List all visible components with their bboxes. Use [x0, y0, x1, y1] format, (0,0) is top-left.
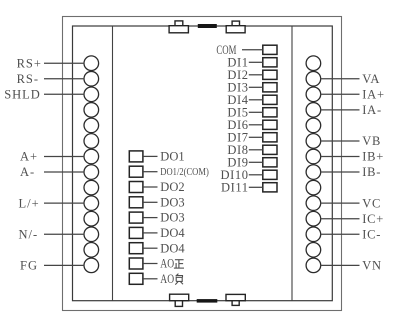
- hanzi FU of label AO-: [175, 274, 183, 285]
- wire DI9: [249, 161, 263, 163]
- wire VC: [320, 202, 359, 204]
- hanzi ZHENG of label AO+: [174, 260, 184, 268]
- terminal IA+: [306, 87, 321, 102]
- svg-text:DO4: DO4: [160, 241, 185, 255]
- wire DO2: [144, 186, 158, 188]
- wire IB-: [320, 171, 359, 173]
- wire IC+: [320, 218, 359, 220]
- wire VA: [320, 78, 359, 80]
- wire A+: [44, 156, 84, 158]
- wire IB+: [320, 156, 359, 158]
- wire IC-: [320, 233, 359, 235]
- wire IA+: [320, 93, 359, 95]
- svg-text:IB-: IB-: [362, 165, 381, 179]
- wire DI5: [249, 111, 263, 113]
- svg-text:DO2: DO2: [160, 180, 184, 194]
- terminal A+: [84, 149, 99, 164]
- terminal VN: [306, 258, 321, 273]
- inner terminal block body: [73, 26, 333, 301]
- wire DO4: [144, 247, 158, 249]
- terminal IA-: [306, 103, 321, 118]
- terminal L/+: [84, 196, 99, 211]
- terminal A-: [84, 165, 99, 180]
- wire AO-: [144, 278, 158, 280]
- DO terminal pad DO3: [129, 197, 143, 208]
- top-left mounting tab: [169, 21, 188, 33]
- wire DO1/2(COM): [144, 171, 158, 173]
- terminal RS+: [84, 56, 99, 71]
- DO terminal pad DO2: [129, 182, 143, 193]
- DI terminal pad DI3: [263, 83, 277, 92]
- DO terminal pad AO-: [129, 273, 143, 284]
- svg-text:RS-: RS-: [17, 72, 39, 86]
- DI terminal pad DI8: [263, 145, 277, 154]
- terminal VC: [306, 196, 321, 211]
- svg-text:AO: AO: [160, 257, 174, 271]
- right terminal 5 (unused): [306, 118, 321, 133]
- svg-text:DO3: DO3: [160, 211, 184, 225]
- DI terminal pad COM: [263, 45, 277, 54]
- wire L/+: [44, 202, 84, 204]
- wire RS+: [44, 62, 84, 64]
- svg-text:N/-: N/-: [19, 227, 39, 241]
- DI terminal pad DI10: [263, 170, 277, 179]
- terminal N/-: [84, 227, 99, 242]
- terminal IC-: [306, 227, 321, 242]
- left terminal strip divider: [112, 26, 114, 301]
- DI terminal pad DI9: [263, 158, 277, 167]
- wire DI2: [249, 74, 263, 76]
- right terminal strip divider: [291, 26, 293, 301]
- DI terminal pad DI4: [263, 95, 277, 104]
- bottom-left mounting tab: [170, 294, 189, 306]
- wire DO1: [144, 155, 158, 157]
- bottom label window (filled): [197, 299, 218, 303]
- svg-text:IA-: IA-: [362, 103, 382, 117]
- wire VB: [320, 140, 359, 142]
- svg-text:IB+: IB+: [362, 150, 384, 164]
- right terminal 1 (unused): [306, 56, 321, 71]
- DO terminal pad DO3: [129, 212, 143, 223]
- DO terminal pad AO+: [129, 258, 143, 269]
- svg-text:IC-: IC-: [362, 227, 381, 241]
- wire DI8: [249, 149, 263, 151]
- svg-text:DO4: DO4: [160, 226, 185, 240]
- svg-text:A-: A-: [20, 165, 35, 179]
- left terminal 5 (unused): [84, 118, 99, 133]
- wire VN: [320, 264, 359, 266]
- terminal RS-: [84, 71, 99, 86]
- outer enclosure box: [63, 17, 342, 311]
- svg-text:VN: VN: [362, 258, 382, 272]
- DO terminal pad DO1: [129, 151, 143, 162]
- DI terminal pad DI6: [263, 120, 277, 129]
- wire DI4: [249, 99, 263, 101]
- svg-text:DO1: DO1: [160, 150, 184, 164]
- left terminal 6 (unused): [84, 134, 99, 149]
- svg-text:VB: VB: [362, 134, 381, 148]
- svg-text:IC+: IC+: [362, 212, 384, 226]
- left terminal 9 (unused): [84, 180, 99, 195]
- right terminal 9 (unused): [306, 180, 321, 195]
- terminal IB-: [306, 165, 321, 180]
- wire COM: [242, 49, 263, 51]
- svg-text:A+: A+: [20, 150, 38, 164]
- svg-text:AO: AO: [160, 272, 174, 286]
- DI terminal pad DI11: [263, 183, 277, 192]
- left terminal 4 (unused): [84, 103, 99, 118]
- wire IA-: [320, 109, 359, 111]
- wire DI3: [249, 86, 263, 88]
- wire SHLD: [44, 93, 84, 95]
- DO terminal pad DO4: [129, 227, 143, 238]
- svg-text:VC: VC: [362, 196, 381, 210]
- top label window (filled): [198, 24, 217, 28]
- terminal IB+: [306, 149, 321, 164]
- wire DI10: [249, 174, 263, 176]
- terminal IC+: [306, 211, 321, 226]
- wire DI1: [249, 61, 263, 63]
- wire RS-: [44, 78, 84, 80]
- left terminal 13 (unused): [84, 243, 99, 258]
- wire DI7: [249, 136, 263, 138]
- right terminal 13 (unused): [306, 243, 321, 258]
- wire N/-: [44, 233, 84, 235]
- terminal VB: [306, 134, 321, 149]
- DO terminal pad DO4: [129, 243, 143, 254]
- svg-text:DO3: DO3: [160, 195, 184, 209]
- svg-text:SHLD: SHLD: [4, 87, 41, 101]
- DI terminal pad DI5: [263, 108, 277, 117]
- svg-text:RS+: RS+: [17, 56, 42, 70]
- wire DI6: [249, 124, 263, 126]
- terminal VA: [306, 71, 321, 86]
- wire A-: [44, 171, 84, 173]
- terminal FG: [84, 258, 99, 273]
- left terminal 11 (unused): [84, 211, 99, 226]
- DI terminal pad DI7: [263, 133, 277, 142]
- svg-text:IA+: IA+: [362, 87, 385, 101]
- top-right mounting tab: [226, 21, 245, 33]
- svg-text:FG: FG: [20, 258, 38, 272]
- DI terminal pad DI1: [263, 58, 277, 67]
- DI terminal pad DI2: [263, 70, 277, 79]
- svg-text:L/+: L/+: [19, 196, 40, 210]
- svg-text:VA: VA: [362, 72, 380, 86]
- svg-text:DO1/2(COM): DO1/2(COM): [160, 167, 209, 178]
- wire FG: [44, 264, 84, 266]
- wire DI11: [249, 186, 263, 188]
- bottom-right mounting tab: [226, 294, 245, 305]
- terminal SHLD: [84, 87, 99, 102]
- wire AO+: [144, 263, 158, 265]
- DO terminal pad DO1/2(COM): [129, 166, 143, 177]
- wire DO3: [144, 217, 158, 219]
- wire DO4: [144, 232, 158, 234]
- wire DO3: [144, 201, 158, 203]
- svg-text:DI11: DI11: [221, 180, 249, 194]
